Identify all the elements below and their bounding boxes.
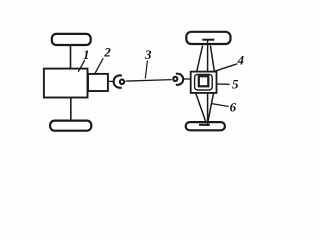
svg-text:1: 1 <box>83 47 90 62</box>
svg-text:5: 5 <box>232 76 239 91</box>
svg-text:4: 4 <box>237 53 245 68</box>
svg-text:2: 2 <box>103 45 111 60</box>
svg-text:6: 6 <box>230 99 237 114</box>
svg-text:3: 3 <box>144 47 152 62</box>
